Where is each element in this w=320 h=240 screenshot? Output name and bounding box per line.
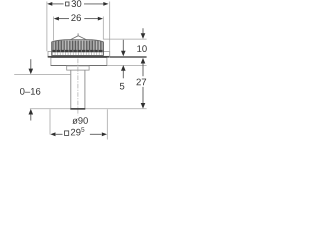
label sq29.5 bbox=[65, 131, 69, 136]
pipe wall right bbox=[84, 70, 86, 109]
ext line 26 left bbox=[52, 17, 54, 41]
dim line sq30 bbox=[52, 3, 64, 5]
ext line sq30 right bbox=[109, 2, 111, 58]
label diameter 90 bbox=[72, 117, 87, 124]
ext line pipe bottom right bbox=[85, 108, 146, 110]
dim 0-16 bottom arrow bbox=[29, 109, 34, 115]
body housing bbox=[51, 58, 107, 66]
center line bbox=[77, 33, 79, 115]
grate rim dark band bbox=[52, 50, 104, 52]
dim 0-16 top arrow bbox=[30, 59, 32, 69]
label sq30 bbox=[66, 2, 70, 6]
ext line body bottom right bbox=[107, 64, 146, 66]
grate top outline bbox=[52, 40, 104, 42]
label 27 bbox=[137, 79, 147, 86]
grate knob bbox=[71, 36, 87, 40]
dim 5 bottom arrow bbox=[121, 65, 126, 71]
grate dome hatch bbox=[52, 40, 104, 56]
dim 5 top arrow bbox=[122, 40, 124, 51]
collar nut bbox=[67, 66, 89, 70]
pipe wall left bbox=[70, 70, 72, 109]
ext line cap top right bbox=[104, 38, 147, 40]
ext line sq295 left bbox=[49, 109, 51, 134]
body bottom edge bbox=[51, 65, 108, 67]
dim line sq295 bbox=[56, 133, 63, 135]
dim line 26 bbox=[59, 18, 70, 20]
ext line sq295 right bbox=[106, 109, 108, 139]
label 0-16 bbox=[20, 88, 40, 95]
pipe bottom edge bbox=[70, 108, 85, 110]
ext line flange bottom right bbox=[110, 56, 147, 58]
dim 27 bottom arrow bbox=[142, 87, 144, 104]
ext line 0-16 top bbox=[14, 74, 70, 76]
dim 10 top arrow bbox=[142, 28, 144, 33]
knob center stub bbox=[77, 33, 79, 35]
grate slot zone bbox=[52, 52, 103, 55]
ext line pipe bottom left bbox=[30, 108, 71, 110]
ext line 26 right bbox=[102, 17, 104, 40]
ext line sq30 left bbox=[46, 2, 48, 52]
flange plate bbox=[48, 51, 110, 56]
label 5 bbox=[120, 83, 125, 90]
dim 27 top arrow bbox=[141, 58, 146, 64]
label 26 bbox=[71, 14, 81, 21]
label 10 bbox=[137, 45, 146, 52]
flange bottom dark edge bbox=[48, 56, 110, 58]
